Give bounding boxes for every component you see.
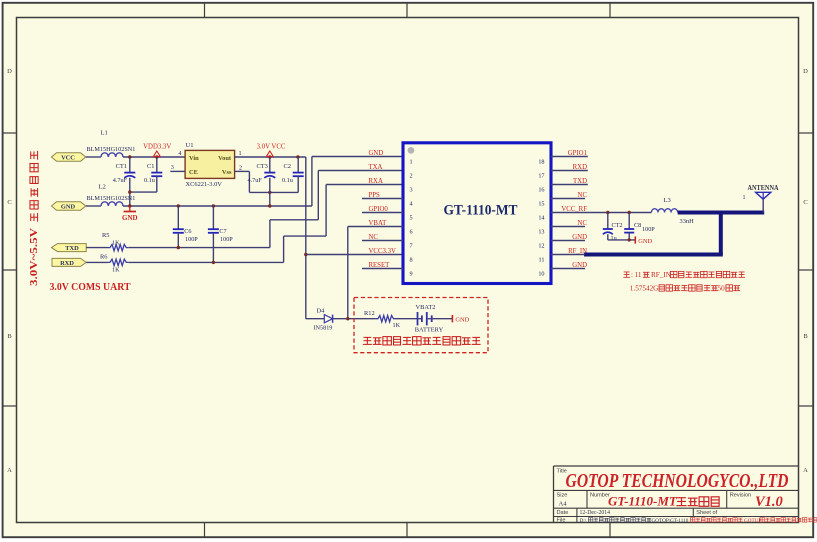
junction C6-TXD: [177, 246, 180, 249]
capacitor C1 0.1u: [130, 157, 163, 192]
svg-text:R5: R5: [102, 232, 109, 239]
ground symbol GND: [122, 206, 138, 222]
svg-text:V1.0: V1.0: [755, 494, 783, 510]
svg-text:2: 2: [410, 172, 413, 179]
svg-text:VDD3.3V: VDD3.3V: [143, 144, 171, 151]
svg-text:12-Dec-2014: 12-Dec-2014: [580, 510, 611, 516]
svg-text:1u: 1u: [611, 235, 617, 242]
wire pin 4 PPS stub: [362, 198, 403, 200]
svg-text:4: 4: [410, 200, 413, 207]
wire pin 13 NC stub: [551, 226, 585, 228]
wire pin 16 TXD stub: [551, 184, 588, 186]
svg-text::: :: [631, 271, 633, 279]
file path text: [580, 518, 817, 524]
svg-text:6: 6: [410, 228, 413, 235]
svg-text:VCC: VCC: [61, 154, 75, 161]
resistor R5 1K: [102, 232, 128, 251]
svg-text:GOTUP: GOTUP: [744, 518, 761, 524]
junction CT1 tap: [128, 155, 131, 158]
wire pin 18 GPIO1 stub: [551, 156, 588, 158]
svg-text:3: 3: [410, 186, 413, 193]
battery VBAT2: [415, 304, 444, 333]
svg-text:9: 9: [410, 270, 413, 277]
svg-text:A: A: [7, 467, 12, 474]
svg-text:18: 18: [538, 158, 544, 165]
svg-text:7: 7: [410, 242, 413, 249]
wire R12 to battery: [396, 318, 418, 320]
capacitor C6 100P: [173, 206, 198, 248]
svg-text:BATTERY: BATTERY: [415, 327, 444, 334]
svg-text:17: 17: [538, 172, 544, 179]
svg-text:0.1u: 0.1u: [282, 177, 293, 184]
wire pin 9 RESET stub: [362, 268, 403, 270]
svg-text:1: 1: [239, 150, 242, 157]
svg-text:A4: A4: [559, 501, 568, 508]
svg-text:Sheet: Sheet: [696, 510, 711, 516]
power port VDD3.3V: [143, 144, 171, 157]
wire pin 12 GND stub: [551, 240, 585, 242]
wire battery to ground: [432, 318, 452, 320]
IC U2 GT-1110-MT: [403, 143, 551, 284]
svg-text:Vin: Vin: [189, 155, 199, 162]
svg-text:1: 1: [743, 195, 746, 201]
wire pin 17 RXD stub: [551, 170, 588, 172]
svg-text:4.7uF: 4.7uF: [113, 177, 128, 184]
junction CT1 ground: [128, 204, 131, 207]
svg-text:GND: GND: [61, 203, 76, 210]
diode D4 IN5819: [314, 307, 333, 331]
svg-text:CT2: CT2: [612, 222, 623, 229]
wire pin 10 GND stub: [551, 268, 585, 270]
wire U1 Vout to 3.0V VCC node: [235, 156, 306, 158]
wire CE stub: [170, 170, 185, 172]
svg-text:3: 3: [171, 164, 174, 171]
svg-text:D: D: [803, 68, 808, 75]
junction C2 tap: [296, 155, 299, 158]
svg-text:C: C: [7, 199, 11, 206]
svg-text:RXA: RXA: [369, 178, 383, 185]
svg-text:100P: 100P: [642, 226, 655, 233]
svg-text:GND: GND: [455, 316, 469, 323]
inductor L1: [87, 130, 136, 158]
ground symbol GND at C8: [635, 236, 652, 245]
svg-text:15: 15: [538, 200, 544, 207]
wire VCC port to L1: [86, 156, 101, 158]
svg-text:11: 11: [539, 256, 545, 263]
svg-text:CT3: CT3: [257, 163, 268, 170]
inductor L3 33nH: [651, 197, 694, 225]
svg-text:CT1: CT1: [116, 163, 127, 170]
inductor L2: [87, 184, 136, 207]
svg-text:C2: C2: [284, 163, 291, 170]
junction C7-RXD: [212, 261, 215, 264]
wire TXD port to R5: [86, 247, 108, 249]
capacitor CT3 4.7uF: [248, 157, 276, 206]
svg-text:B: B: [7, 333, 12, 340]
wire pin 7 NC stub: [362, 240, 403, 242]
svg-text:2: 2: [239, 164, 242, 171]
wire 3.0V VCC down to VBAT diode: [306, 157, 325, 319]
regulator U1 XC6221-3.0V: [185, 142, 235, 188]
wire pin 14 VCC_RF to L3: [551, 212, 651, 214]
wire U1 Vss jog: [235, 171, 299, 192]
svg-text:L2: L2: [99, 184, 106, 191]
RF microstrip trace to antenna: [584, 213, 764, 255]
svg-text:1.57542G: 1.57542G: [630, 284, 659, 292]
port VCC: [52, 153, 86, 162]
svg-text:Vout: Vout: [218, 155, 232, 162]
svg-text:L3: L3: [664, 197, 672, 204]
svg-text:IN5819: IN5819: [314, 325, 333, 332]
junction CT3 ground: [268, 204, 271, 207]
svg-text:C1: C1: [147, 163, 154, 170]
svg-text:TXA: TXA: [369, 164, 383, 171]
junction CT2 tap: [606, 211, 609, 214]
capacitor CT2 1u: [603, 213, 623, 243]
svg-text:5: 5: [410, 214, 413, 221]
wire GND port to L2: [86, 205, 101, 207]
svg-text:of: of: [713, 510, 718, 516]
svg-text:100P: 100P: [220, 236, 233, 243]
svg-text:4: 4: [178, 150, 181, 157]
title block frame: [554, 466, 799, 523]
svg-text:C8: C8: [634, 222, 641, 229]
svg-text:100P: 100P: [185, 236, 198, 243]
port GND: [52, 202, 86, 211]
note: RF_IN microstrip note line 1: [623, 271, 745, 279]
junction C8 tap: [628, 211, 631, 214]
svg-text:Date: Date: [557, 510, 569, 516]
ground symbol GND at battery: [452, 315, 469, 323]
svg-text:4.7uF: 4.7uF: [248, 177, 263, 184]
capacitor C2 0.1u: [282, 157, 304, 192]
svg-text:1K: 1K: [112, 239, 120, 246]
svg-text:1: 1: [410, 158, 413, 165]
junction C6 ground: [177, 204, 180, 207]
svg-text:ANTENNA: ANTENNA: [748, 183, 779, 192]
svg-text:A: A: [803, 467, 808, 474]
title block field labels: [557, 468, 752, 523]
port TXD: [52, 244, 87, 252]
svg-text:0.1u: 0.1u: [144, 177, 155, 184]
svg-text:VBAT2: VBAT2: [416, 304, 436, 311]
svg-text:D4: D4: [317, 307, 326, 314]
svg-text:Size: Size: [557, 493, 568, 499]
svg-text:BLM15HG102SN1: BLM15HG102SN1: [87, 195, 136, 202]
resistor R6 1K: [100, 253, 128, 273]
border zone letters: [7, 68, 808, 474]
svg-text:U1: U1: [186, 142, 194, 149]
svg-text:1K: 1K: [393, 322, 401, 329]
drawing number GT-1110-MT: [608, 494, 719, 509]
wire pin 15 NC stub: [551, 198, 585, 200]
svg-text:GT-1110-MT: GT-1110-MT: [444, 203, 518, 219]
backup battery dashed box: [354, 298, 488, 353]
resistor R12 1K: [364, 310, 401, 329]
svg-text:GOTOP\GT-1110: GOTOP\GT-1110: [652, 518, 689, 524]
wire pin 6 VBAT to battery: [348, 227, 403, 319]
svg-text:13: 13: [538, 228, 544, 235]
wire pin 8 VCC3.3V: [306, 254, 403, 256]
note: backup battery for ephemeris data: [363, 337, 481, 345]
junction Vss-CT3 tie: [268, 191, 271, 194]
svg-text:D:\: D:\: [580, 518, 587, 524]
svg-text:B: B: [803, 333, 808, 340]
svg-text:50: 50: [718, 284, 726, 292]
svg-text:D: D: [7, 68, 12, 75]
wire ground rail riser to chip pin 1: [312, 157, 403, 207]
power port 3.0V VCC: [257, 144, 286, 157]
svg-text:C: C: [803, 199, 807, 206]
svg-text:3.0V COMS UART: 3.0V COMS UART: [50, 281, 132, 293]
capacitor C7 100P: [208, 206, 233, 262]
svg-text:VCC3.3V: VCC3.3V: [369, 248, 396, 255]
port RXD: [52, 258, 86, 266]
wire R6 to RXA riser: [128, 185, 403, 263]
svg-text:XC6221-3.0V: XC6221-3.0V: [186, 181, 223, 188]
svg-text:C6: C6: [184, 228, 191, 235]
junction C1-CT1 ground tie: [128, 190, 131, 193]
svg-text:3.0V VCC: 3.0V VCC: [257, 144, 286, 151]
svg-text:12: 12: [538, 242, 544, 249]
svg-text:RXD: RXD: [60, 260, 74, 267]
wire L1 to U1 Vin: [123, 156, 185, 158]
note: impedance note line 2: [630, 284, 740, 292]
svg-text:14: 14: [538, 214, 544, 221]
wire D4 to R12: [333, 318, 376, 320]
svg-text:GND: GND: [369, 150, 384, 157]
vertical note: 3.0V~5.5V system voltage input: [29, 151, 40, 286]
svg-text:C7: C7: [219, 228, 226, 235]
svg-text:R12: R12: [364, 310, 375, 317]
svg-text:GND: GND: [122, 214, 138, 222]
svg-text:File: File: [557, 518, 566, 524]
svg-text:GND: GND: [638, 238, 652, 245]
svg-text:RF_IN: RF_IN: [651, 271, 672, 279]
wire ground rail: [123, 205, 312, 207]
junction C8 ground: [628, 238, 631, 241]
svg-text:1K: 1K: [112, 267, 120, 274]
svg-text:Revision: Revision: [730, 493, 751, 499]
svg-text:11: 11: [635, 271, 642, 279]
wire R5 to TXA riser: [128, 171, 403, 248]
wire RXD port to R6: [86, 261, 108, 263]
svg-text:16: 16: [538, 186, 544, 193]
junction VBAT tie: [346, 317, 349, 320]
svg-text:R6: R6: [100, 253, 107, 260]
svg-text:GT-1110-MT: GT-1110-MT: [608, 494, 678, 509]
svg-text:3.0V~5.5V: 3.0V~5.5V: [29, 227, 40, 286]
junction CT3 tap: [268, 155, 271, 158]
junction C7 ground: [212, 204, 215, 207]
wire pin 11 RF_IN: [551, 254, 585, 256]
svg-text:CE: CE: [189, 169, 198, 176]
svg-text:GOTOP TECHNOLOGYCO.,LTD: GOTOP TECHNOLOGYCO.,LTD: [566, 471, 789, 492]
wire CT2-C8 ground tie: [608, 239, 635, 241]
capacitor C8 100P: [624, 213, 655, 240]
svg-text:33nH: 33nH: [680, 218, 695, 225]
svg-text:Vss: Vss: [222, 169, 232, 176]
svg-text:10: 10: [538, 270, 544, 277]
svg-text:BLM15HG102SN1: BLM15HG102SN1: [87, 146, 136, 153]
svg-text:TXD: TXD: [65, 245, 79, 252]
capacitor CT1 4.7uF: [113, 157, 136, 206]
wire pin 5 GPIO0 stub: [362, 212, 403, 214]
svg-text:L1: L1: [101, 130, 108, 137]
junction VCC3.3V pin 8 tap: [304, 253, 307, 256]
antenna E1: [743, 183, 779, 212]
svg-text:8: 8: [410, 256, 413, 263]
junction C1 tap: [155, 155, 158, 158]
